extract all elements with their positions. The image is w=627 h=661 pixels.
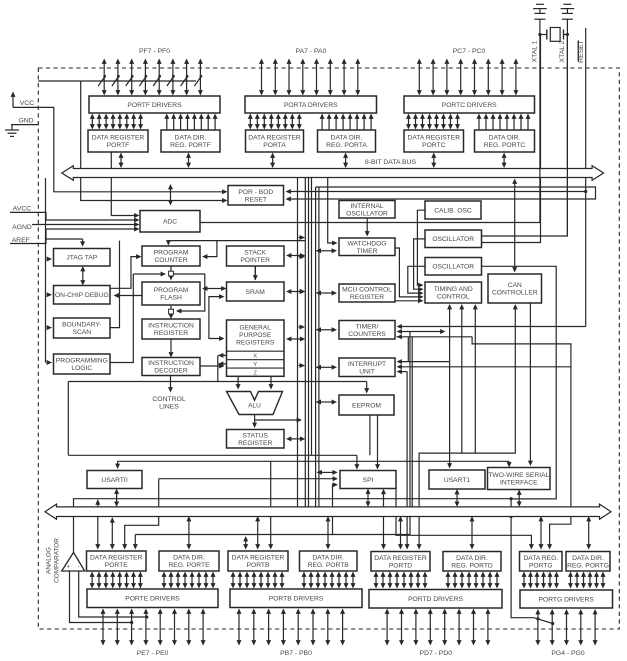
svg-text:USART1: USART1 xyxy=(444,477,471,484)
svg-text:POINTER: POINTER xyxy=(240,257,270,264)
svg-text:DATA REGISTER: DATA REGISTER xyxy=(374,555,427,562)
svg-text:Y: Y xyxy=(253,362,257,368)
svg-text:DATA REG.: DATA REG. xyxy=(523,555,558,562)
svg-text:SPI: SPI xyxy=(363,477,374,484)
svg-text:REGISTER: REGISTER xyxy=(154,330,188,337)
svg-text:CALIB. OSC: CALIB. OSC xyxy=(434,207,472,214)
svg-text:CONTROL: CONTROL xyxy=(152,396,185,403)
svg-text:REG. PORTB: REG. PORTB xyxy=(308,562,350,569)
svg-text:TIMER/: TIMER/ xyxy=(356,323,379,330)
svg-text:PORTD DRIVERS: PORTD DRIVERS xyxy=(408,596,463,603)
svg-text:FLASH: FLASH xyxy=(160,295,182,302)
svg-text:REG. PORTF: REG. PORTF xyxy=(170,142,211,149)
svg-text:PORTE DRIVERS: PORTE DRIVERS xyxy=(125,596,180,603)
svg-text:DATA REGISTER: DATA REGISTER xyxy=(408,135,461,142)
svg-text:GENERAL: GENERAL xyxy=(239,325,271,332)
svg-text:COUNTERS: COUNTERS xyxy=(348,331,386,338)
svg-text:VCC: VCC xyxy=(20,100,34,107)
svg-text:PORTA DRIVERS: PORTA DRIVERS xyxy=(284,102,338,109)
svg-text:COUNTER: COUNTER xyxy=(154,257,187,264)
svg-text:PORTC DRIVERS: PORTC DRIVERS xyxy=(442,102,497,109)
svg-text:JTAG TAP: JTAG TAP xyxy=(66,255,97,262)
svg-text:PORTE: PORTE xyxy=(105,562,128,569)
svg-text:8-BIT DATA BUS: 8-BIT DATA BUS xyxy=(365,159,416,166)
svg-text:LINES: LINES xyxy=(159,403,179,410)
svg-text:BOUNDARY-: BOUNDARY- xyxy=(62,322,101,329)
svg-text:TIMING AND: TIMING AND xyxy=(434,286,473,293)
svg-text:REG. PORTG: REG. PORTG xyxy=(567,562,609,569)
svg-text:REG. PORTD: REG. PORTD xyxy=(451,562,493,569)
svg-text:RESET: RESET xyxy=(578,40,585,63)
svg-text:PROGRAMMING: PROGRAMMING xyxy=(56,358,108,365)
svg-text:CONTROLLER: CONTROLLER xyxy=(492,290,538,297)
svg-text:-: - xyxy=(78,564,80,570)
svg-text:WATCHDOG: WATCHDOG xyxy=(347,240,386,247)
svg-text:AGND: AGND xyxy=(12,224,32,231)
svg-text:REG. PORTA: REG. PORTA xyxy=(326,142,367,149)
svg-text:COMPARATOR: COMPARATOR xyxy=(54,538,61,583)
svg-text:ANALOG: ANALOG xyxy=(46,547,53,574)
svg-text:STACK: STACK xyxy=(244,250,266,257)
svg-text:PD7 - PD0: PD7 - PD0 xyxy=(420,650,453,657)
svg-text:PA7 - PA0: PA7 - PA0 xyxy=(296,48,327,55)
svg-text:PORTF: PORTF xyxy=(107,142,130,149)
svg-text:AVCC: AVCC xyxy=(13,206,31,213)
svg-text:TIMER: TIMER xyxy=(357,248,378,255)
svg-text:DATA DIR.: DATA DIR. xyxy=(572,555,604,562)
svg-text:PORTA: PORTA xyxy=(263,142,286,149)
svg-text:TWO-WIRE SERIAL: TWO-WIRE SERIAL xyxy=(488,472,549,479)
svg-text:OSCILLATOR: OSCILLATOR xyxy=(432,264,474,271)
svg-text:INSTRUCTION: INSTRUCTION xyxy=(148,360,194,367)
svg-text:PC7 - PC0: PC7 - PC0 xyxy=(453,48,486,55)
svg-text:DATA REGISTER: DATA REGISTER xyxy=(92,135,145,142)
svg-text:REG. PORTE: REG. PORTE xyxy=(168,562,210,569)
svg-text:DATA REGISTER: DATA REGISTER xyxy=(248,135,301,142)
svg-text:DATA DIR.: DATA DIR. xyxy=(456,555,488,562)
svg-text:Z: Z xyxy=(253,370,257,376)
svg-text:PORTG DRIVERS: PORTG DRIVERS xyxy=(539,596,595,603)
svg-text:PURPOSE: PURPOSE xyxy=(239,332,272,339)
svg-text:REGISTERS: REGISTERS xyxy=(236,339,275,346)
svg-text:OSCILLATOR: OSCILLATOR xyxy=(346,210,388,217)
svg-text:INSTRUCTION: INSTRUCTION xyxy=(148,323,194,330)
svg-text:PB7 - PB0: PB7 - PB0 xyxy=(280,650,312,657)
svg-text:XTAL 2: XTAL 2 xyxy=(559,40,566,62)
svg-text:CAN: CAN xyxy=(508,282,522,289)
svg-text:DATA DIR.: DATA DIR. xyxy=(173,555,205,562)
svg-text:GND: GND xyxy=(18,117,33,124)
svg-text:DATA REGISTER: DATA REGISTER xyxy=(232,555,285,562)
svg-text:OSCILLATOR: OSCILLATOR xyxy=(432,236,474,243)
svg-text:SRAM: SRAM xyxy=(246,289,266,296)
svg-text:MCU CONTROL: MCU CONTROL xyxy=(342,287,392,294)
svg-text:PE7 - PE0: PE7 - PE0 xyxy=(137,650,169,657)
svg-text:INTERRUPT: INTERRUPT xyxy=(348,361,386,368)
svg-text:REG. PORTC: REG. PORTC xyxy=(484,142,526,149)
svg-text:PORTG: PORTG xyxy=(529,562,553,569)
svg-text:DECODER: DECODER xyxy=(154,368,188,375)
svg-text:PROGRAM: PROGRAM xyxy=(154,250,189,257)
svg-text:POR - BOD: POR - BOD xyxy=(238,189,273,196)
svg-text:DATA REGISTER: DATA REGISTER xyxy=(90,555,143,562)
svg-text:REGISTER: REGISTER xyxy=(350,294,384,301)
svg-text:USART0: USART0 xyxy=(101,477,128,484)
svg-text:PG4 - PG0: PG4 - PG0 xyxy=(551,650,584,657)
svg-text:+: + xyxy=(67,564,71,570)
svg-text:CONTROL: CONTROL xyxy=(437,294,470,301)
svg-text:X: X xyxy=(253,354,257,360)
svg-text:DATA DIR.: DATA DIR. xyxy=(312,555,344,562)
svg-text:DATA DIR.: DATA DIR. xyxy=(331,135,363,142)
svg-text:UNIT: UNIT xyxy=(359,368,375,375)
svg-text:PORTF DRIVERS: PORTF DRIVERS xyxy=(127,102,182,109)
svg-text:LOGIC: LOGIC xyxy=(71,365,92,372)
svg-text:SCAN: SCAN xyxy=(73,329,92,336)
svg-text:PF7 - PF0: PF7 - PF0 xyxy=(139,48,170,55)
svg-text:INTERFACE: INTERFACE xyxy=(500,480,538,487)
svg-text:XTAL 1: XTAL 1 xyxy=(532,40,539,62)
svg-text:PORTB DRIVERS: PORTB DRIVERS xyxy=(269,596,324,603)
svg-text:DATA DIR.: DATA DIR. xyxy=(489,135,521,142)
svg-text:EEPROM: EEPROM xyxy=(352,402,381,409)
svg-text:INTERNAL: INTERNAL xyxy=(350,203,383,210)
svg-text:REGISTER: REGISTER xyxy=(238,440,272,447)
svg-text:DATA DIR.: DATA DIR. xyxy=(175,135,207,142)
svg-text:RESET: RESET xyxy=(245,196,267,203)
svg-text:PORTD: PORTD xyxy=(389,562,412,569)
svg-text:STATUS: STATUS xyxy=(243,432,269,439)
svg-text:PORTC: PORTC xyxy=(422,142,445,149)
svg-text:PORTB: PORTB xyxy=(247,562,270,569)
svg-text:ADC: ADC xyxy=(163,219,177,226)
svg-text:PROGRAM: PROGRAM xyxy=(154,287,189,294)
svg-text:ALU: ALU xyxy=(248,403,261,410)
svg-text:ON-CHIP DEBUG: ON-CHIP DEBUG xyxy=(55,292,109,299)
